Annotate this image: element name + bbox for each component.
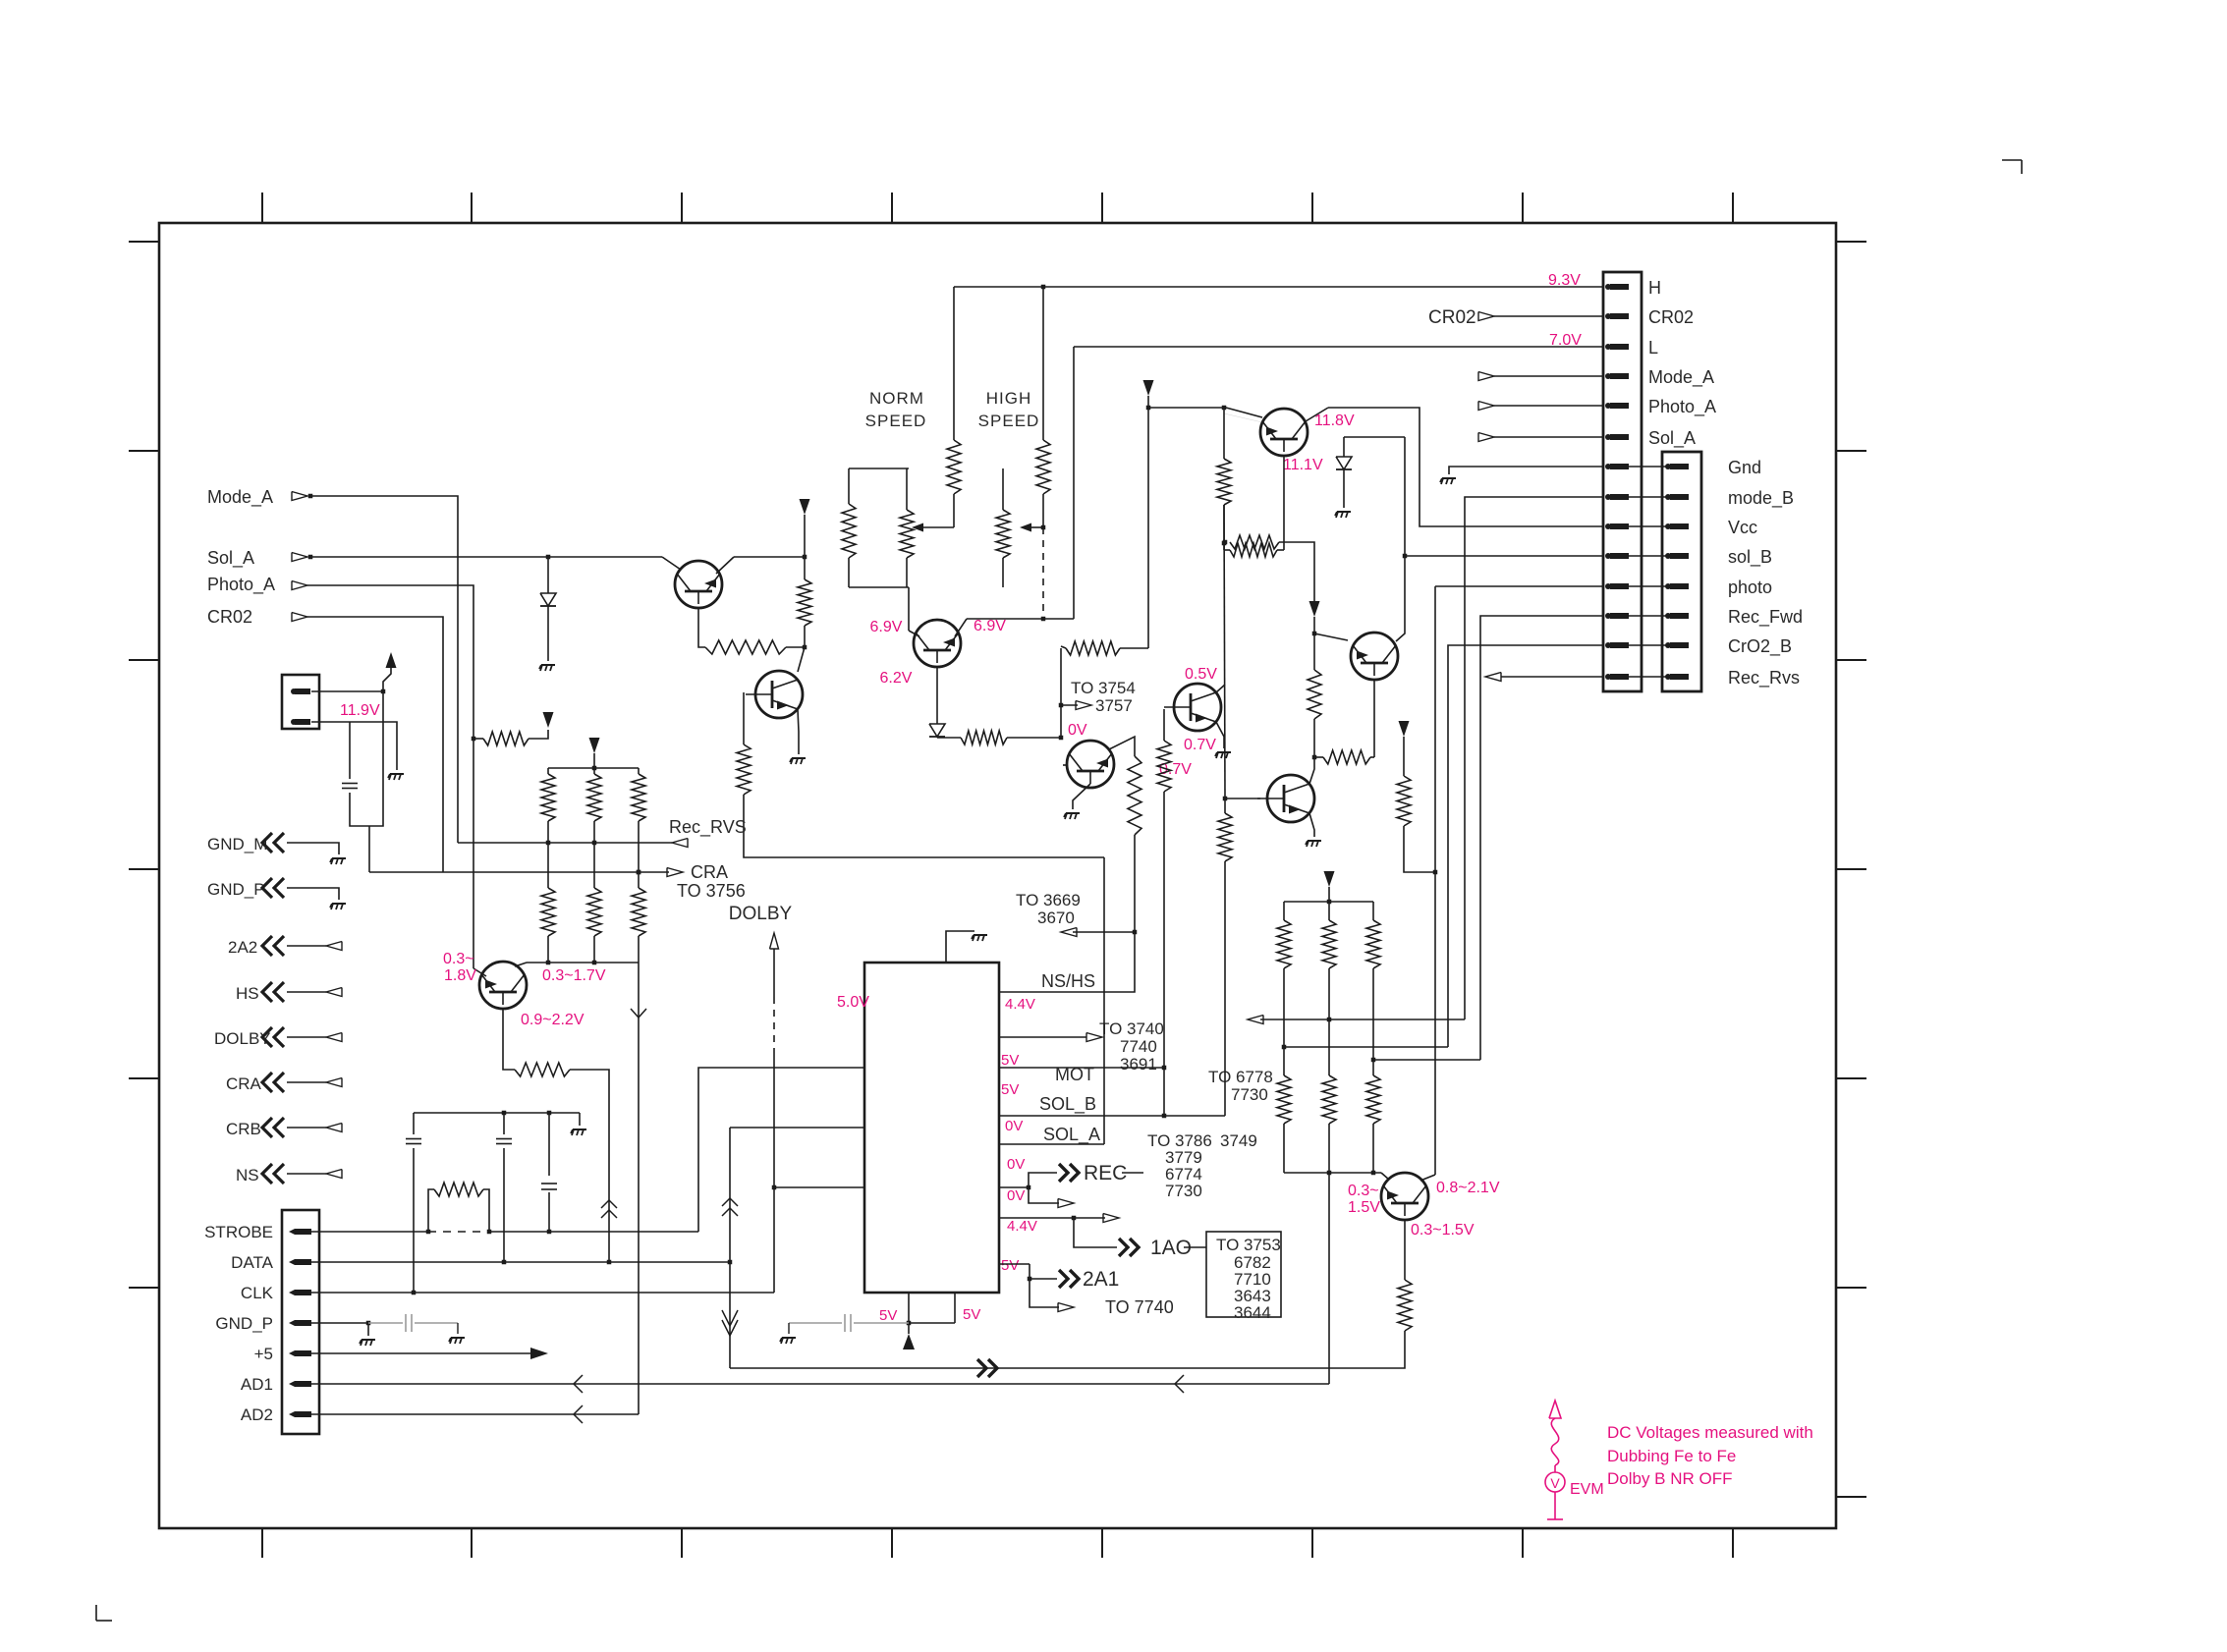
svg-text:mode_B: mode_B xyxy=(1728,488,1794,509)
svg-text:Rec_RVS: Rec_RVS xyxy=(669,817,747,838)
svg-text:7730: 7730 xyxy=(1165,1182,1202,1200)
svg-text:REC: REC xyxy=(1084,1162,1127,1184)
svg-text:GND_P: GND_P xyxy=(207,880,265,899)
svg-text:L: L xyxy=(1648,338,1658,358)
svg-text:3644: 3644 xyxy=(1234,1303,1271,1322)
svg-text:CR02: CR02 xyxy=(1648,307,1694,327)
svg-text:Mode_A: Mode_A xyxy=(1648,367,1714,388)
svg-text:2A2: 2A2 xyxy=(228,938,257,957)
svg-text:11.1V: 11.1V xyxy=(1283,457,1323,473)
svg-text:CR02: CR02 xyxy=(1428,307,1476,328)
svg-text:SPEED: SPEED xyxy=(865,412,927,430)
svg-text:CRA: CRA xyxy=(691,862,728,882)
svg-text:AD1: AD1 xyxy=(241,1375,273,1394)
svg-text:TO 3753: TO 3753 xyxy=(1216,1236,1281,1254)
svg-text:0.3~1.5V: 0.3~1.5V xyxy=(1411,1222,1475,1239)
svg-text:SPEED: SPEED xyxy=(978,412,1040,430)
svg-text:H: H xyxy=(1648,278,1661,298)
svg-text:Photo_A: Photo_A xyxy=(207,575,275,595)
svg-text:AD2: AD2 xyxy=(241,1405,273,1424)
svg-text:0.8~2.1V: 0.8~2.1V xyxy=(1436,1180,1500,1196)
svg-text:CRB: CRB xyxy=(226,1120,261,1138)
svg-text:Dubbing Fe to Fe: Dubbing Fe to Fe xyxy=(1607,1447,1736,1465)
svg-text:0V: 0V xyxy=(1005,1118,1023,1134)
svg-text:2A1: 2A1 xyxy=(1083,1268,1119,1291)
svg-text:0.7V: 0.7V xyxy=(1184,737,1216,753)
svg-text:9.3V: 9.3V xyxy=(1548,272,1581,289)
svg-text:0.5V: 0.5V xyxy=(1185,666,1217,683)
svg-text:3670: 3670 xyxy=(1037,909,1075,927)
svg-text:Photo_A: Photo_A xyxy=(1648,397,1716,417)
svg-text:5.0V: 5.0V xyxy=(837,994,869,1011)
svg-text:+5: +5 xyxy=(254,1345,273,1363)
svg-text:Vcc: Vcc xyxy=(1728,518,1757,537)
svg-text:7730: 7730 xyxy=(1231,1085,1268,1104)
svg-text:DATA: DATA xyxy=(231,1253,273,1272)
svg-text:4.4V: 4.4V xyxy=(1007,1218,1037,1235)
svg-text:CRA: CRA xyxy=(226,1074,262,1093)
svg-text:11.8V: 11.8V xyxy=(1314,413,1355,429)
svg-text:STROBE: STROBE xyxy=(204,1223,273,1241)
svg-text:Sol_A: Sol_A xyxy=(1648,428,1696,449)
svg-text:3691: 3691 xyxy=(1120,1055,1157,1074)
svg-text:11.9V: 11.9V xyxy=(340,702,380,719)
svg-text:DC Voltages measured with: DC Voltages measured with xyxy=(1607,1423,1813,1442)
svg-text:5V: 5V xyxy=(963,1306,980,1323)
svg-text:5V: 5V xyxy=(879,1307,897,1324)
svg-text:TO 6778: TO 6778 xyxy=(1208,1068,1273,1086)
svg-text:DOLBY: DOLBY xyxy=(729,904,793,924)
svg-text:CR02: CR02 xyxy=(207,607,252,627)
svg-text:5V: 5V xyxy=(1001,1052,1019,1069)
svg-text:6.2V: 6.2V xyxy=(880,670,913,687)
svg-text:0V: 0V xyxy=(1007,1187,1025,1204)
svg-text:Mode_A: Mode_A xyxy=(207,487,273,508)
svg-text:TO 3669: TO 3669 xyxy=(1016,891,1081,909)
svg-text:HS: HS xyxy=(236,984,259,1003)
svg-text:SOL_B: SOL_B xyxy=(1039,1094,1096,1115)
svg-text:3749: 3749 xyxy=(1220,1131,1257,1150)
svg-text:TO 3740: TO 3740 xyxy=(1099,1019,1164,1038)
svg-text:EVM: EVM xyxy=(1570,1481,1604,1498)
svg-text:0.9~2.2V: 0.9~2.2V xyxy=(521,1012,585,1028)
svg-text:Sol_A: Sol_A xyxy=(207,548,254,569)
svg-text:1.5V: 1.5V xyxy=(1348,1199,1380,1216)
svg-text:TO 3754: TO 3754 xyxy=(1071,679,1136,697)
svg-text:0.3~: 0.3~ xyxy=(1348,1183,1379,1199)
svg-text:HIGH: HIGH xyxy=(986,389,1032,408)
svg-text:0V: 0V xyxy=(1007,1156,1025,1173)
svg-text:CrO2_B: CrO2_B xyxy=(1728,636,1792,657)
svg-text:SOL_A: SOL_A xyxy=(1043,1125,1100,1145)
svg-text:4.4V: 4.4V xyxy=(1005,996,1035,1013)
svg-text:5V: 5V xyxy=(1001,1081,1019,1098)
svg-text:NORM: NORM xyxy=(869,389,924,408)
svg-text:Rec_Fwd: Rec_Fwd xyxy=(1728,607,1803,628)
svg-text:3757: 3757 xyxy=(1095,696,1133,715)
svg-text:CLK: CLK xyxy=(241,1284,274,1302)
svg-text:1.8V: 1.8V xyxy=(444,967,476,984)
svg-text:0V: 0V xyxy=(1068,722,1087,739)
svg-text:6.9V: 6.9V xyxy=(974,618,1006,634)
svg-text:TO 3756: TO 3756 xyxy=(677,881,746,901)
svg-text:Gnd: Gnd xyxy=(1728,458,1761,477)
svg-text:MOT: MOT xyxy=(1055,1065,1094,1084)
svg-text:GND_P: GND_P xyxy=(215,1314,273,1333)
svg-text:7740: 7740 xyxy=(1120,1037,1157,1056)
svg-text:GND_M: GND_M xyxy=(207,835,267,854)
svg-text:0.3~: 0.3~ xyxy=(443,951,474,967)
svg-text:photo: photo xyxy=(1728,578,1772,597)
svg-text:sol_B: sol_B xyxy=(1728,547,1772,568)
svg-text:NS: NS xyxy=(236,1166,259,1184)
svg-text:TO 7740: TO 7740 xyxy=(1105,1297,1174,1317)
svg-text:V: V xyxy=(1550,1475,1560,1491)
svg-text:0.3~1.7V: 0.3~1.7V xyxy=(542,967,606,984)
svg-text:6.9V: 6.9V xyxy=(870,619,903,635)
svg-text:Rec_Rvs: Rec_Rvs xyxy=(1728,668,1800,688)
svg-text:7.0V: 7.0V xyxy=(1549,332,1582,349)
svg-text:5V: 5V xyxy=(1001,1257,1019,1274)
svg-text:Dolby B NR OFF: Dolby B NR OFF xyxy=(1607,1469,1733,1488)
svg-text:NS/HS: NS/HS xyxy=(1041,971,1095,991)
